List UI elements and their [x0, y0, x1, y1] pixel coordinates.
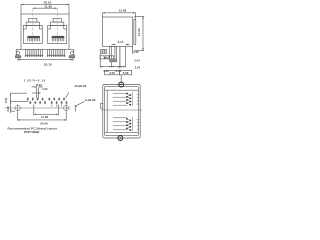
svg-text:14.29: 14.29 [137, 28, 141, 36]
svg-text:2.54: 2.54 [134, 58, 140, 62]
jack opening right [48, 8, 67, 44]
svg-text:5.08: 5.08 [133, 50, 139, 54]
side view body [102, 17, 132, 46]
svg-text:1.02*5=5.10: 1.02*5=5.10 [24, 79, 46, 83]
svg-text:2.30: 2.30 [6, 106, 10, 112]
dimension 11.38 [33, 7, 57, 9]
svg-text:11.90: 11.90 [41, 115, 49, 119]
mounting hole right [64, 104, 69, 111]
post circle top [119, 82, 124, 87]
pins port 2 [127, 119, 130, 130]
stagger arrows under holes [51, 104, 62, 106]
svg-text:13.58: 13.58 [119, 9, 127, 13]
contacts top view port 2 [113, 118, 127, 130]
mounting hole left [15, 104, 20, 111]
svg-text:25.10: 25.10 [44, 62, 52, 66]
dimension 25.10 top [21, 4, 69, 14]
pin 2 side [124, 46, 126, 60]
svg-text:⊕0.1: ⊕0.1 [104, 56, 110, 59]
svg-text:2-⌀2.36: 2-⌀2.36 [85, 98, 96, 102]
dim 24.30 [18, 112, 66, 121]
dimension 13.58 [102, 12, 135, 20]
svg-text:2.14: 2.14 [118, 40, 124, 44]
svg-text:24.30: 24.30 [40, 121, 48, 125]
inner wall line [105, 89, 139, 91]
contacts right jack [52, 36, 64, 41]
pin dim ticks port1 [132, 92, 139, 106]
left tab [101, 103, 103, 108]
leader to hole port B [66, 93, 69, 98]
latch lever [134, 20, 136, 45]
small dim arrows pcb [32, 84, 43, 98]
svg-text:1.02: 1.02 [42, 87, 48, 91]
svg-text:3.54: 3.54 [4, 97, 8, 103]
front view outer body [21, 14, 69, 49]
dimension 14.29 vertical [134, 16, 144, 50]
dim 11.90 [34, 105, 59, 116]
footprint inner body [105, 87, 139, 136]
svg-text:4.00: 4.00 [109, 71, 115, 75]
left mount bracket [15, 49, 21, 58]
bottom dimension front view [18, 58, 73, 61]
boxed dim 4.00 [105, 70, 120, 75]
centerline pcb [5, 107, 71, 109]
mounting post side [110, 46, 117, 61]
boxed dim 5.08 [120, 70, 132, 75]
pin holes port B [49, 97, 68, 104]
leader of 2-d2.36 [75, 102, 85, 112]
contacts left jack [27, 36, 39, 41]
footprint outer body [103, 85, 140, 139]
contacts top view port 1 [113, 93, 127, 105]
bottom dims side view [100, 54, 125, 68]
svg-text:3.04: 3.04 [115, 69, 121, 73]
post circle bottom [118, 136, 123, 141]
left vertical dim pcb [10, 93, 29, 114]
right mount bracket [69, 49, 75, 58]
leader to post [120, 75, 122, 82]
svg-text:5.08: 5.08 [123, 71, 129, 75]
pin holes port A [27, 97, 46, 104]
svg-text:11.38: 11.38 [44, 4, 52, 8]
pin dim ticks port2 [132, 117, 139, 131]
solder legs under body [25, 49, 65, 57]
pins port 1 [127, 94, 130, 105]
body centerline [101, 109, 142, 111]
svg-text:16-⌀0.90: 16-⌀0.90 [74, 84, 86, 88]
svg-text:2.04: 2.04 [135, 66, 141, 70]
side foot pad [100, 50, 107, 54]
jack opening left [23, 8, 42, 44]
tolerance frame box [100, 56, 114, 60]
pcb pin side [119, 46, 121, 68]
svg-text:(TOP VIEW): (TOP VIEW) [24, 130, 40, 134]
